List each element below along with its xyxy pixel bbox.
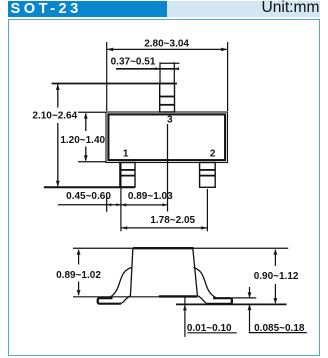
- svg-text:1: 1: [123, 148, 129, 159]
- dimension 0.90~1.12 text: [254, 271, 299, 282]
- svg-text:2: 2: [210, 148, 216, 159]
- svg-text:0.01~0.10: 0.01~0.10: [187, 323, 232, 334]
- dimension 0.01~0.10 underline: [187, 332, 236, 334]
- svg-text:2.80~3.04: 2.80~3.04: [144, 38, 189, 49]
- svg-text:0.90~1.12: 0.90~1.12: [254, 271, 299, 282]
- label 2: [210, 148, 216, 159]
- svg-text:1.20~1.40: 1.20~1.40: [60, 135, 105, 146]
- dimension 0.45~0.60 text: [66, 191, 111, 202]
- dimension 0.085~0.18 arrows: [248, 292, 252, 310]
- dimension 2.10~2.64 extension line bottom: [44, 186, 135, 188]
- dimension 0.89~1.03 arrows: [121, 203, 167, 206]
- body outline outer (top view): [106, 112, 228, 163]
- dimension 0.085~0.18 extension line: [232, 297, 256, 299]
- pin 3 band lines: [160, 97, 175, 105]
- extension line pin1-left long: [120, 163, 122, 231]
- dimension 0.89~1.02 text: [56, 270, 101, 281]
- label 1: [123, 148, 129, 159]
- left lead foot: [98, 298, 121, 304]
- pin 1 band lines: [120, 170, 135, 176]
- dimension 2.10~2.64 arrows: [56, 84, 60, 187]
- dimension 0.37~0.51 text: [111, 56, 156, 67]
- dimension 1.78~2.05 arrows: [121, 226, 207, 229]
- dimension 0.085~0.18 line: [249, 287, 251, 332]
- dimension 0.01~0.10 arrow: [183, 305, 187, 311]
- dimension 0.90~1.12 arrows: [274, 249, 278, 304]
- pin 1: [120, 163, 135, 188]
- pin 2: [200, 163, 216, 188]
- dimension 2.10~2.64 line: [57, 85, 59, 187]
- extension line pin2: [206, 189, 208, 231]
- side view top line: [73, 247, 288, 249]
- dimension 2.10~2.64 text: [32, 110, 77, 121]
- dimension 0.37~0.51 arrows: [155, 67, 179, 70]
- dimension 2.80~3.04 arrows: [107, 48, 227, 52]
- side view body bottom thick: [159, 295, 197, 297]
- svg-text:0.45~0.60: 0.45~0.60: [66, 191, 111, 202]
- dimension 0.45~0.60 arrows: [107, 203, 121, 206]
- dimension 0.37~0.51 line: [116, 68, 177, 70]
- dimension 1.20~1.40 extension lines: [78, 112, 106, 162]
- dimension 0.89~1.03 text: [128, 191, 173, 202]
- right lead foot: [208, 298, 232, 304]
- header unit label: [167, 1, 320, 17]
- side view body top thick: [133, 247, 194, 249]
- left lead outline: [110, 268, 132, 304]
- dimension 1.78~2.05 line: [121, 227, 207, 229]
- svg-text:3: 3: [167, 114, 173, 125]
- dimension 1.78~2.05 text: [150, 215, 195, 226]
- dimension 2.80~3.04 line: [107, 48, 228, 50]
- dimension 0.37~0.51 extension lines: [160, 62, 174, 83]
- side view bottom line: [73, 296, 197, 298]
- dimension 1.20~1.40 line: [85, 114, 87, 161]
- svg-text:1.78~2.05: 1.78~2.05: [150, 215, 195, 226]
- dimension 0.45~0.60 line: [58, 204, 121, 206]
- pin 2 band lines: [200, 170, 216, 176]
- svg-text:0.89~1.03: 0.89~1.03: [128, 191, 173, 202]
- svg-text:0.89~1.02: 0.89~1.02: [56, 270, 101, 281]
- side view body sides: [130, 248, 197, 296]
- dimension 0.085~0.18 underline: [249, 332, 307, 334]
- seating plane line: [176, 303, 287, 305]
- dimension 0.90~1.12 line: [274, 250, 276, 303]
- label 3: [167, 114, 173, 125]
- dimension 1.20~1.40 arrows: [84, 113, 88, 162]
- dimension 0.01~0.10 line: [184, 297, 186, 337]
- dimension 0.89~1.02 line: [78, 250, 80, 295]
- pin 3: [160, 84, 175, 113]
- svg-text:2.10~2.64: 2.10~2.64: [32, 110, 77, 121]
- svg-text:0.37~0.51: 0.37~0.51: [111, 56, 156, 67]
- dimension 0.37~0.51 top short line: [160, 62, 180, 64]
- body outline inner thick: [108, 114, 225, 160]
- dimension 2.80~3.04 extension lines: [107, 42, 228, 111]
- node centerline pin3: [167, 124, 169, 212]
- extension line body-left short: [106, 196, 108, 212]
- dimension 0.89~1.03 line: [121, 204, 168, 206]
- header bar SOT-23: [8, 1, 167, 17]
- dimension 1.20~1.40 text: [60, 135, 105, 146]
- right lead outline: [194, 268, 216, 304]
- dimension 2.80~3.04 text: [144, 38, 189, 49]
- dimension 0.89~1.02 arrows: [77, 249, 81, 296]
- dimension 0.085~0.18 text: [254, 323, 305, 334]
- dimension 0.01~0.10 text: [187, 323, 232, 334]
- dimension 2.10~2.64 extension line top: [52, 83, 177, 85]
